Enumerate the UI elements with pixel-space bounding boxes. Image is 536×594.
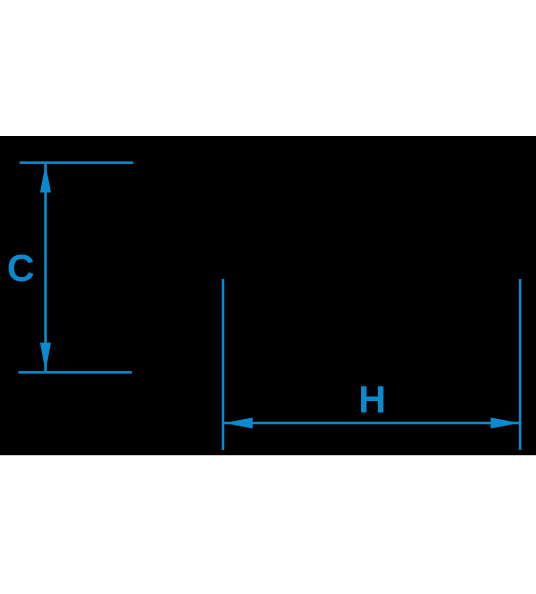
arrowhead H right	[491, 418, 519, 429]
arrowhead H left	[224, 418, 252, 429]
extension line C top	[20, 161, 134, 164]
svg-text:H: H	[359, 380, 386, 422]
arrowhead C up	[40, 164, 51, 192]
arrowhead C down	[40, 343, 51, 372]
extension line H right	[519, 279, 522, 450]
extension line C bottom	[18, 371, 132, 374]
svg-text:C: C	[7, 248, 34, 290]
background black band (product area)	[0, 136, 536, 455]
extension line H left	[222, 279, 225, 450]
dimension line C (vertical)	[44, 164, 47, 371]
dimension line H (horizontal)	[224, 422, 519, 425]
